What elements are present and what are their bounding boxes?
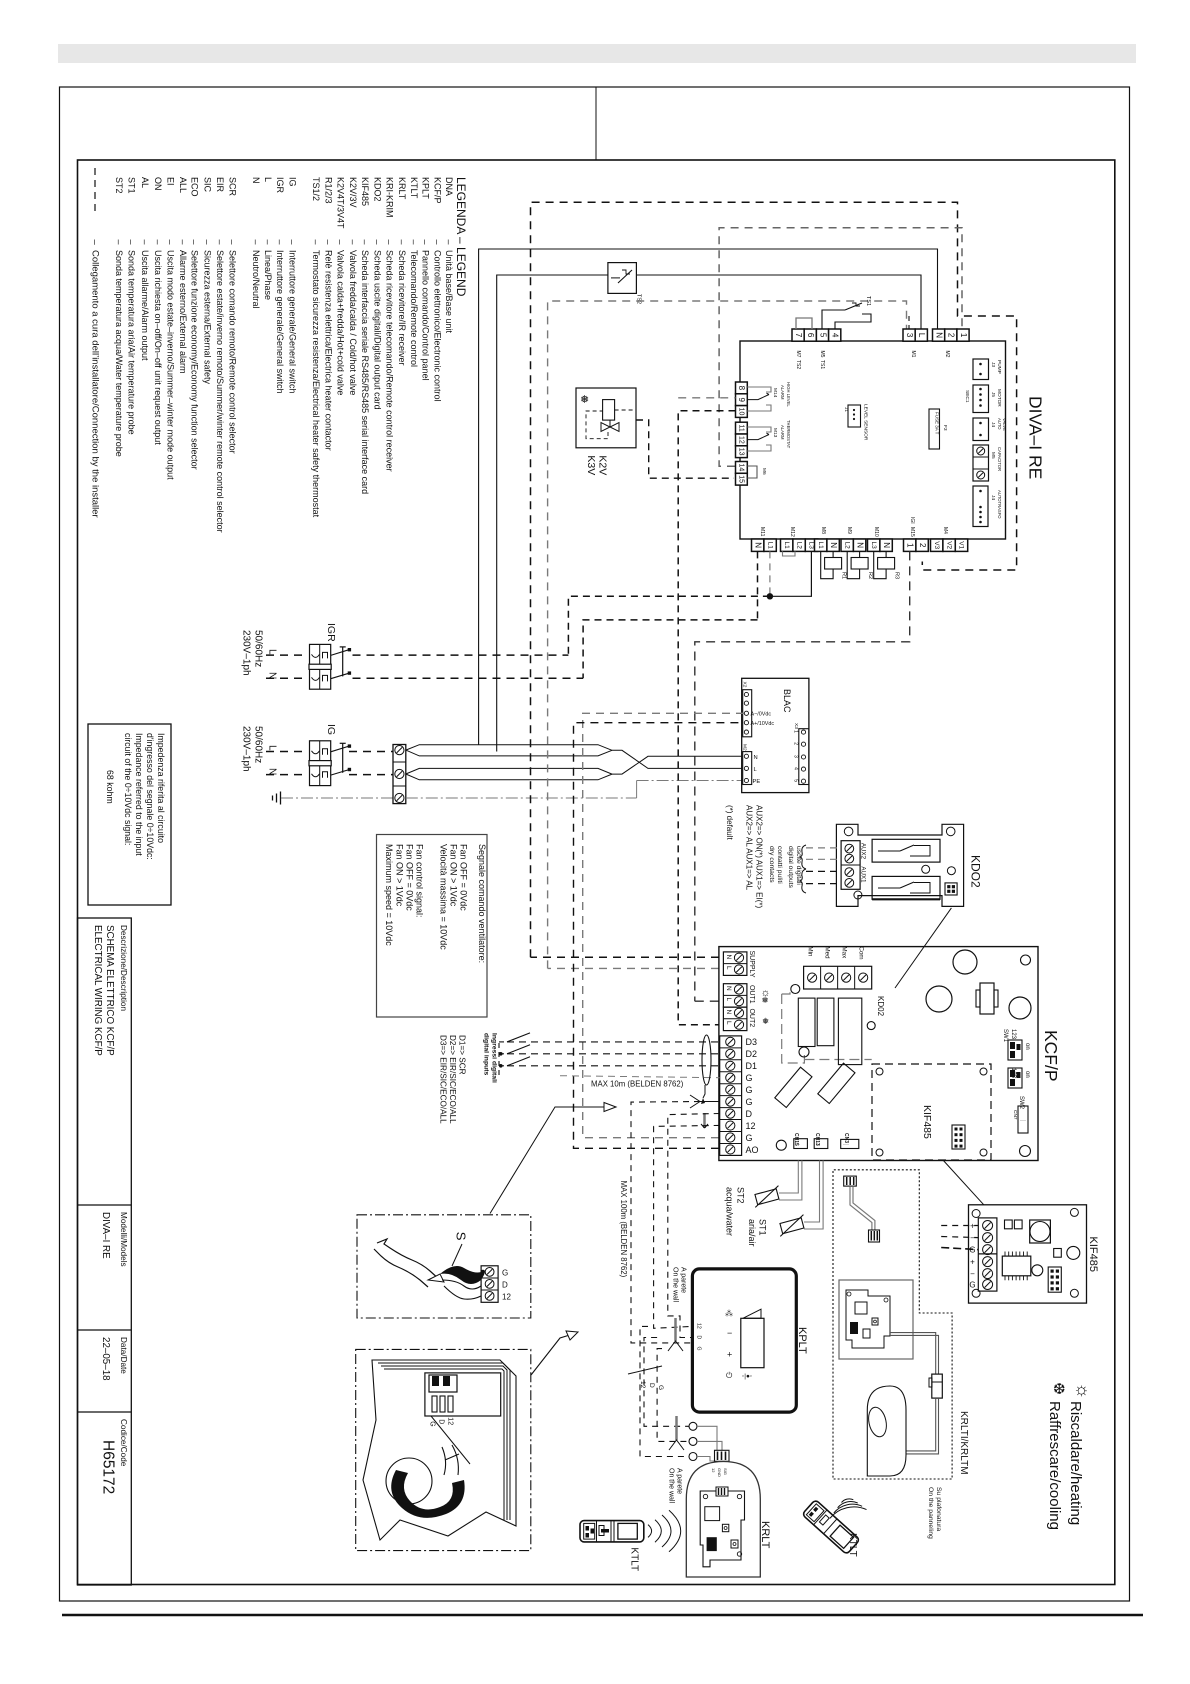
svg-text:N: N xyxy=(934,332,943,338)
svg-text:–: – xyxy=(409,240,419,245)
svg-text:ST1: ST1 xyxy=(127,177,137,194)
DNA left terminal 8 (M14) xyxy=(736,382,748,394)
DNA left terminal 15 (M6) xyxy=(736,473,748,485)
wire D3 input xyxy=(507,1041,720,1043)
svg-text:Data/Date: Data/Date xyxy=(119,1337,128,1374)
braces dry contacts xyxy=(800,845,806,869)
KDO2 relay 1 xyxy=(872,839,940,862)
svg-text:OUT1: OUT1 xyxy=(748,985,755,1004)
KIF485 footprint header xyxy=(952,1125,965,1149)
KDO2 leader line to footprint xyxy=(895,908,951,988)
svg-text:Termostato sicurezza resistenz: Termostato sicurezza resistenza/Electric… xyxy=(311,250,321,518)
svg-text:M7: M7 xyxy=(795,351,801,358)
svg-text:Sonda temperatura acqua/Water: Sonda temperatura acqua/Water temperatur… xyxy=(114,250,124,457)
svg-text:–: – xyxy=(215,240,225,245)
svg-text:L: L xyxy=(267,745,278,751)
wire A+ dashed from KCF AO xyxy=(574,723,745,1149)
svg-text:1: 1 xyxy=(959,333,968,338)
wire shield G xyxy=(560,1076,720,1078)
valve K2V/K3V box xyxy=(576,388,636,448)
svg-text:ST1: ST1 xyxy=(758,1219,768,1236)
svg-text:F3: F3 xyxy=(942,425,948,431)
svg-text:15: 15 xyxy=(737,475,744,483)
svg-text:22–05–18: 22–05–18 xyxy=(100,1337,111,1381)
KPLT triangle glyph xyxy=(743,1309,761,1318)
DNA left terminal 13 (M13) xyxy=(736,446,748,458)
svg-text:–: – xyxy=(114,240,124,245)
DNA bottom terminal V2 (M4) xyxy=(943,539,955,551)
DNA top terminal 7 (M7) xyxy=(792,329,804,341)
svg-text:R1: R1 xyxy=(841,572,847,579)
svg-text:D3=> EIR/SIC/ECO/ALL: D3=> EIR/SIC/ECO/ALL xyxy=(439,1035,448,1124)
unit cable hook sketch xyxy=(431,1416,470,1464)
svg-text:Interruttore generale/General: Interruttore generale/General switch xyxy=(275,250,285,394)
inner drawing frame xyxy=(78,160,1115,1585)
wire L1 M11 gray dashed to junction xyxy=(769,551,771,596)
svg-text:SUPPLY: SUPPLY xyxy=(748,951,755,978)
KCF diagonal relay 2 xyxy=(818,1063,855,1103)
svg-text:L3: L3 xyxy=(870,542,877,550)
svg-text:(*) default: (*) default xyxy=(725,805,734,840)
svg-text:−: − xyxy=(970,1270,975,1279)
svg-text:7: 7 xyxy=(794,333,803,338)
svg-text:–: – xyxy=(324,240,334,245)
DNA top terminal 1 (M2) xyxy=(957,329,969,341)
bottom heavy underline xyxy=(62,1614,1143,1616)
water probe ST2 xyxy=(779,1161,798,1194)
DNA capacitor terminals M5 xyxy=(973,445,989,481)
KRI-KRIM lower connector xyxy=(869,1230,880,1242)
svg-text:+: + xyxy=(727,1350,732,1360)
svg-text:–: – xyxy=(190,240,200,245)
svg-text:THERMOSTAT: THERMOSTAT xyxy=(786,420,791,449)
DNA bottom terminal L2 (M12) xyxy=(793,539,805,551)
svg-text:AUX1: AUX1 xyxy=(860,866,867,883)
DNA left terminal 9 (M14) xyxy=(736,394,748,406)
svg-text:contatti puliti: contatti puliti xyxy=(776,846,783,884)
IG main switch xyxy=(310,741,331,765)
wire D1 input xyxy=(507,1065,720,1067)
svg-text:digital outputs: digital outputs xyxy=(787,846,794,889)
svg-text:circuit of the 0÷10Vdc signal:: circuit of the 0÷10Vdc signal: xyxy=(123,733,133,845)
svg-text:❆: ❆ xyxy=(1053,1381,1066,1398)
KCF OUT2 terminal block xyxy=(723,1007,747,1031)
DNA connector J3 pump xyxy=(973,359,989,380)
svg-text:A−/0Vdc: A−/0Vdc xyxy=(751,712,772,718)
KCF small hole 4 xyxy=(799,1047,809,1057)
svg-text:J3: J3 xyxy=(990,362,996,367)
cable shield ellipse xyxy=(702,1035,711,1085)
svg-text:M9: M9 xyxy=(846,527,852,534)
svg-text:G: G xyxy=(746,1133,753,1143)
svg-text:G: G xyxy=(746,1097,753,1107)
KCF OUT1 terminal block xyxy=(723,984,747,1007)
svg-text:M14: M14 xyxy=(772,388,778,398)
svg-text:Collegamento a cura dell’insta: Collegamento a cura dell’installatore/Co… xyxy=(89,250,100,518)
IR waves KTLT to KRLT xyxy=(648,1525,652,1538)
svg-text:TS2: TS2 xyxy=(795,360,801,369)
KDO2 AUX terminal block xyxy=(841,841,860,890)
svg-text:KD02: KD02 xyxy=(876,996,885,1017)
svg-text:L2: L2 xyxy=(795,542,802,550)
svg-text:M13: M13 xyxy=(772,428,778,438)
svg-text:MOTOR: MOTOR xyxy=(996,389,1002,407)
title block cell Descrizione/Description xyxy=(78,1204,132,1206)
unit connector block xyxy=(425,1373,501,1416)
DNA connector J1 level sensor xyxy=(848,405,861,427)
ceiling receiver dotted enclosure xyxy=(833,1170,952,1479)
svg-text:L: L xyxy=(725,1021,732,1025)
svg-text:Med: Med xyxy=(824,947,831,960)
terminal TB-IG screw N xyxy=(395,769,404,778)
svg-text:◦|●◦: ◦|●◦ xyxy=(742,1373,752,1380)
svg-text:V2: V2 xyxy=(945,541,952,549)
DNA bottom terminal L1 (M12) xyxy=(781,539,793,551)
arrow leader from unit box xyxy=(531,1334,573,1375)
svg-text:S: S xyxy=(454,1232,469,1241)
svg-text:on: on xyxy=(1024,1043,1030,1050)
svg-text:A parete: A parete xyxy=(680,1267,687,1293)
KRLT PCB components xyxy=(705,1507,720,1521)
svg-text:2: 2 xyxy=(793,742,799,745)
svg-text:Riscaldare/heating: Riscaldare/heating xyxy=(1067,1401,1084,1525)
valve internal dashed link xyxy=(586,411,608,439)
svg-text:Interruttore generale/General: Interruttore generale/General switch xyxy=(287,250,297,394)
svg-text:–: – xyxy=(89,240,100,246)
svg-text:230V–1ph: 230V–1ph xyxy=(241,726,252,772)
wire IG N solid feed up xyxy=(479,249,938,745)
wire KPLT/KRLT bus down to plug circles xyxy=(644,1338,689,1427)
svg-text:SCHEMA ELETTRICO KCF/P: SCHEMA ELETTRICO KCF/P xyxy=(104,925,115,1056)
KRI-KRIM module inner pcb xyxy=(846,1290,890,1348)
DNA bottom terminal N (M9) xyxy=(853,539,865,551)
wire IG N stub xyxy=(266,774,308,776)
DNA dashed route terminal 3 (M1) from KCF SUPPLY L xyxy=(548,967,719,969)
DNA bottom terminal L3 (M12) xyxy=(805,539,817,551)
DNA dashed route terminal 14 xyxy=(719,228,962,467)
svg-text:Velocità massima = 10Vdc: Velocità massima = 10Vdc xyxy=(439,844,449,950)
KCF diagonal relay 1 xyxy=(775,1067,812,1107)
svg-text:··: ·· xyxy=(796,1142,800,1148)
DNA terminal 3 dashed stub xyxy=(908,316,910,329)
svg-text:R1/2/3: R1/2/3 xyxy=(324,177,334,204)
KCF relay footprint 3 xyxy=(838,998,861,1065)
svg-text:KCF/P: KCF/P xyxy=(1041,1030,1061,1082)
svg-text:50/60Hz: 50/60Hz xyxy=(253,726,264,763)
KRI-KRIM PCB module frame xyxy=(839,1280,913,1359)
svg-text:SIC: SIC xyxy=(202,177,212,193)
wire TS2 to DNA L terminal xyxy=(636,275,921,341)
svg-text:Neutro/Neutral: Neutro/Neutral xyxy=(251,250,261,309)
svg-text:–: – xyxy=(311,240,321,245)
svg-text:D3: D3 xyxy=(746,1037,758,1047)
title block cell Data/Date xyxy=(78,1411,132,1413)
KIF485 footprint corner holes xyxy=(876,1068,883,1075)
relay contact M14 high level alarm xyxy=(747,387,771,392)
S cable sketch xyxy=(377,1239,440,1280)
svg-text:G: G xyxy=(429,1421,436,1426)
wire PE dash-dot to BLAC xyxy=(406,797,637,799)
svg-text:SIG: SIG xyxy=(723,1468,728,1475)
svg-text:TS1: TS1 xyxy=(819,360,825,369)
svg-text:KCF/P: KCF/P xyxy=(432,177,442,204)
svg-text:Sicurezza esterna/External saf: Sicurezza esterna/External safety xyxy=(202,250,212,385)
DNA bottom terminal N (M8) xyxy=(827,539,839,551)
svg-text:Fan ON > 1Vdc: Fan ON > 1Vdc xyxy=(449,844,459,907)
DNA top terminal L (M1) xyxy=(915,329,927,341)
KIF485 leader line xyxy=(943,1161,983,1205)
svg-text:–: – xyxy=(397,240,407,245)
svg-text:Su plafonatura: Su plafonatura xyxy=(935,1487,942,1531)
svg-text:PUMP: PUMP xyxy=(996,360,1002,374)
svg-text:IG: IG xyxy=(325,724,337,735)
svg-text:–: – xyxy=(228,240,238,245)
svg-text:Scheda interfaccia seriale RS4: Scheda interfaccia seriale RS485/RS485 s… xyxy=(360,250,370,494)
svg-text:12: 12 xyxy=(737,436,744,444)
DNA left terminal 14 (M6) xyxy=(736,462,748,474)
strain symbol on KPLT cable xyxy=(674,1318,677,1341)
svg-text:DIVA–I RE: DIVA–I RE xyxy=(1026,396,1046,479)
wire loop M12 L1-L2 bridge xyxy=(783,551,796,556)
wire KCF G to KPLT G xyxy=(700,1101,720,1103)
svg-text:aria/air: aria/air xyxy=(747,1219,757,1247)
terminal TB-IG screw PE xyxy=(395,793,404,802)
top strip divider xyxy=(595,87,597,160)
wire DNA terminal 9 gray stub xyxy=(678,397,735,399)
svg-text:M5: M5 xyxy=(819,351,825,358)
svg-text:–: – xyxy=(263,240,273,245)
DNA bottom terminal V3 (M4) xyxy=(931,539,943,551)
svg-text:M2: M2 xyxy=(742,744,748,751)
svg-text:SW2: SW2 xyxy=(1018,1096,1024,1110)
IGR main switch xyxy=(310,644,331,668)
svg-text:On the wall: On the wall xyxy=(672,1267,679,1302)
svg-text:13: 13 xyxy=(737,448,744,456)
wires plug to KRLT connector xyxy=(697,1426,717,1450)
svg-text:BLAC: BLAC xyxy=(782,689,792,713)
svg-text:8: 8 xyxy=(737,386,746,391)
KDO2 mounting holes xyxy=(844,827,853,836)
KIF485 wires dashed xyxy=(941,1225,978,1227)
svg-text:AUX2=> AL AUX1=> AL: AUX2=> AL AUX1=> AL xyxy=(745,805,754,891)
svg-text:123: 123 xyxy=(1010,1029,1016,1040)
shield drain to G terminal xyxy=(703,1085,705,1098)
svg-text:N: N xyxy=(882,542,891,548)
svg-text:–: – xyxy=(153,240,163,245)
svg-text:G: G xyxy=(746,1085,753,1095)
svg-text:AUTOTRASFO: AUTOTRASFO xyxy=(997,490,1002,519)
svg-text:d'ingresso del segnale 0÷10Vdc: d'ingresso del segnale 0÷10Vdc: xyxy=(145,733,155,860)
svg-text:M2: M2 xyxy=(944,351,950,358)
svg-text:L3: L3 xyxy=(808,542,815,550)
KDO2 AUX1 screws xyxy=(845,868,854,877)
svg-text:EIR: EIR xyxy=(215,177,225,193)
DNA top terminal 2 (M2) xyxy=(945,329,957,341)
svg-text:–: – xyxy=(275,240,285,245)
svg-text:G: G xyxy=(696,1347,702,1351)
KCF relay footprint 1 xyxy=(798,998,815,1046)
KRLT PCB outline xyxy=(700,1491,744,1567)
svg-text:–: – xyxy=(178,240,188,245)
wire IGR L dashed to junction xyxy=(568,596,770,655)
svg-text:KRLT: KRLT xyxy=(759,1521,771,1549)
svg-text:D: D xyxy=(502,1280,508,1289)
wire DNA terminal 10 to KCF OUT2 xyxy=(678,411,735,1025)
svg-text:KRI-KRIM: KRI-KRIM xyxy=(385,177,395,218)
KIF485 footprint dashed outline xyxy=(872,1064,991,1160)
KCF digital terminal strip xyxy=(720,1036,742,1156)
svg-text:K2V/3V: K2V/3V xyxy=(348,177,358,208)
svg-text:L2: L2 xyxy=(843,542,850,550)
svg-text:–: – xyxy=(140,240,150,245)
svg-text:AUTO: AUTO xyxy=(997,418,1002,430)
BLAC connector X2 xyxy=(743,690,752,737)
svg-text:KIF485: KIF485 xyxy=(1087,1237,1099,1272)
svg-text:X2: X2 xyxy=(742,682,748,688)
digital output card KDO2 outline xyxy=(836,824,963,906)
KCF small hole top xyxy=(1021,955,1031,965)
svg-text:AUX2=> ON(*) AUX1=> EI(*): AUX2=> ON(*) AUX1=> EI(*) xyxy=(755,805,764,908)
KRLT top connector xyxy=(715,1450,730,1461)
svg-text:G: G xyxy=(502,1268,508,1277)
svg-text:TS1/2: TS1/2 xyxy=(311,177,321,201)
svg-text:Allarme esterno/External alarm: Allarme esterno/External alarm xyxy=(178,250,188,374)
terminal block TB-IG xyxy=(393,745,406,804)
svg-text:Min: Min xyxy=(807,947,814,958)
wire IG earth dash-dot xyxy=(281,797,393,799)
wire IG L stub xyxy=(266,751,308,753)
DNA left terminal 10 (M14) xyxy=(736,406,748,418)
svg-text:SEC1: SEC1 xyxy=(964,390,970,403)
svg-text:MAX 100m (BELDEN 8762): MAX 100m (BELDEN 8762) xyxy=(619,1181,628,1278)
svg-text:Selettore funzione economy/Eco: Selettore funzione economy/Economy funct… xyxy=(190,250,200,470)
shield Y to G6 terminal xyxy=(690,1095,720,1102)
svg-text:Valvola fredda/calda / Cold/ho: Valvola fredda/calda / Cold/hot valve xyxy=(348,250,358,395)
svg-text:D1: D1 xyxy=(746,1061,758,1071)
title block cell Modelli/Models xyxy=(78,1329,132,1331)
heater relay R3 xyxy=(874,551,886,578)
svg-text:M5: M5 xyxy=(990,452,996,459)
svg-text:G: G xyxy=(969,1281,975,1290)
svg-text:··: ·· xyxy=(816,1142,820,1148)
svg-text:D: D xyxy=(696,1336,702,1340)
svg-text:L1: L1 xyxy=(817,542,824,550)
KDO2 relay 2 xyxy=(872,876,940,899)
svg-text:M12: M12 xyxy=(789,527,795,537)
svg-text:L1: L1 xyxy=(783,542,790,550)
svg-text:–: – xyxy=(385,240,395,245)
svg-text:L: L xyxy=(263,177,273,182)
earth symbol at IG xyxy=(280,792,282,805)
svg-text:12: 12 xyxy=(711,1468,716,1473)
svg-text:R3: R3 xyxy=(894,572,900,579)
KDO2 jumper block xyxy=(945,883,957,895)
svg-text:❅: ❅ xyxy=(580,394,589,406)
KIF485 round component xyxy=(1067,1246,1080,1259)
svg-text:–: – xyxy=(287,240,297,245)
KIF485 IC chip xyxy=(1002,1256,1031,1276)
svg-text:SCR: SCR xyxy=(228,177,238,197)
svg-text:KTLT: KTLT xyxy=(629,1547,640,1571)
svg-text:N: N xyxy=(855,542,864,548)
svg-text:Scheda ricevitore/IR receiver: Scheda ricevitore/IR receiver xyxy=(397,250,407,366)
svg-text:KRLT: KRLT xyxy=(397,177,407,200)
wire N M11 dashed down and left (IGR N) xyxy=(757,551,759,620)
svg-text:K3V: K3V xyxy=(585,455,597,475)
title block outline xyxy=(78,918,132,1585)
svg-text:AUX2: AUX2 xyxy=(860,843,867,860)
svg-text:ON: ON xyxy=(153,177,163,191)
svg-text:Com: Com xyxy=(858,947,865,960)
svg-text:10: 10 xyxy=(737,408,744,416)
svg-text:230V–1ph: 230V–1ph xyxy=(241,630,252,676)
svg-text:−: − xyxy=(727,1328,732,1338)
DNA top terminal 5 (M5) xyxy=(816,329,828,341)
svg-text:on: on xyxy=(1024,1071,1030,1078)
cable continues to receiver xyxy=(906,1398,936,1451)
wire L3 M12 solid to junction xyxy=(770,551,812,596)
svg-text:KPLT: KPLT xyxy=(796,1327,808,1354)
svg-text:DNA: DNA xyxy=(444,177,454,196)
page top gray bar xyxy=(58,44,1136,63)
svg-text:L: L xyxy=(917,333,926,338)
svg-text:acqua/water: acqua/water xyxy=(725,1187,735,1236)
svg-text:1: 1 xyxy=(793,730,799,733)
KCF crystal component xyxy=(980,983,994,1014)
svg-text:ALARM: ALARM xyxy=(780,385,785,400)
svg-text:–: – xyxy=(165,240,175,245)
DNA bottom terminal L1 (M11) xyxy=(764,539,776,551)
KCF relay footprint 2 xyxy=(817,998,834,1046)
motor driver BLAC box xyxy=(742,678,809,792)
remote control KTLT handset 2 (tilted) xyxy=(802,1499,860,1554)
svg-text:ALL: ALL xyxy=(178,177,188,193)
svg-text:Selettore estate/inverno remot: Selettore estate/inverno remoto/Summer/w… xyxy=(215,250,225,533)
svg-text:J4: J4 xyxy=(990,422,996,427)
svg-text:D2=> EIR/SIC/ECO/ALL: D2=> EIR/SIC/ECO/ALL xyxy=(448,1035,457,1124)
svg-text:9: 9 xyxy=(737,397,746,402)
svg-text:N: N xyxy=(251,177,261,184)
svg-text:HIGH LEVEL: HIGH LEVEL xyxy=(786,382,791,407)
slash mark 3 wires xyxy=(628,1366,662,1374)
svg-text:V3: V3 xyxy=(933,541,940,549)
svg-text:TS1: TS1 xyxy=(865,296,871,306)
DNA top terminal 3 (M1) xyxy=(903,329,915,341)
svg-text:L: L xyxy=(754,767,758,773)
svg-text:Linea/Phase: Linea/Phase xyxy=(263,250,273,300)
wire IG L solid feed up to TS2 xyxy=(497,275,608,752)
KIF485 terminal block xyxy=(978,1218,997,1291)
wire terminal 1 M15 to KCF OUT1 xyxy=(695,551,910,1001)
link M6 terminals 14-15 xyxy=(747,466,757,478)
svg-text:GND: GND xyxy=(717,1468,722,1477)
svg-text:KDO2: KDO2 xyxy=(373,177,383,202)
svg-text:Telecomando/Remote control: Telecomando/Remote control xyxy=(409,250,419,367)
DNA bottom terminal 2 (M15) xyxy=(916,539,928,551)
unit sketch frame lines xyxy=(378,1363,510,1520)
strain symbol on KRLT cable xyxy=(675,1416,678,1440)
svg-text:N: N xyxy=(725,955,732,960)
KRI-KRIM top connector xyxy=(844,1176,857,1186)
KCF small hole 5 xyxy=(867,1022,875,1030)
svg-text:N: N xyxy=(725,1010,732,1015)
electronic control KCF/P board outline xyxy=(719,947,1038,1161)
wire K2V to DNA terminal 15 xyxy=(636,420,734,478)
wire D2 input xyxy=(507,1053,720,1055)
KCF SUPPLY terminal block xyxy=(723,952,747,976)
svg-text:4: 4 xyxy=(793,767,799,770)
KCF mounting hole 1 xyxy=(953,950,977,974)
